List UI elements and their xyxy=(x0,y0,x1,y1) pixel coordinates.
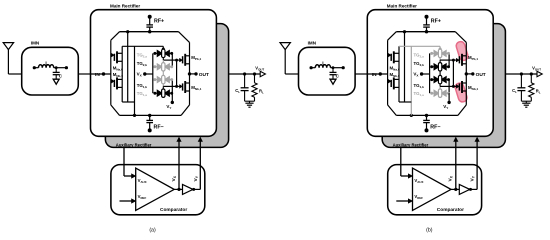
wire IMN to IN xyxy=(78,73,90,75)
wire bottom right corner xyxy=(458,105,466,116)
wire top bus right corner xyxy=(455,32,466,43)
VY feedback arrow xyxy=(193,188,200,190)
VX feedback arrow xyxy=(178,140,180,189)
wire top TG feed xyxy=(399,45,440,47)
svg-text:RF−: RF− xyxy=(430,124,440,130)
inductor L in IMN xyxy=(34,67,39,69)
wire TG2-TG3 link xyxy=(439,71,441,75)
capacitor CL xyxy=(243,72,246,75)
wire top bus left corner xyxy=(111,32,120,41)
svg-text:IN: IN xyxy=(372,72,377,78)
main rectifier block xyxy=(91,10,217,137)
svg-text:Comparator: Comparator xyxy=(437,207,464,213)
svg-text:IMN: IMN xyxy=(308,41,317,46)
node VY xyxy=(448,93,450,102)
RF+ terminal xyxy=(425,15,429,19)
antenna (a) xyxy=(3,43,13,50)
node VY xyxy=(171,93,173,102)
transistor MPa,0 xyxy=(388,54,389,56)
wire bottom bus xyxy=(396,114,458,116)
wire top bus right corner xyxy=(179,32,190,43)
VREF input xyxy=(120,200,133,202)
svg-text:Auxiliary Rectifier: Auxiliary Rectifier xyxy=(116,142,152,147)
svg-text:Comparator: Comparator xyxy=(160,207,187,213)
svg-text:L: L xyxy=(322,60,325,66)
ground in IMN xyxy=(330,79,336,84)
wire bottom left corner xyxy=(111,105,120,116)
wire left rail bottom join xyxy=(399,101,411,103)
wire left drain rail A xyxy=(398,46,400,102)
RF+ terminal xyxy=(148,15,152,19)
transistor MPb,1 xyxy=(177,59,180,61)
wire TG2-TG3 link xyxy=(162,71,164,75)
ground output xyxy=(521,100,531,102)
RF- terminal xyxy=(426,115,428,120)
transistor MPa,0 xyxy=(111,54,112,56)
wire right drain rail xyxy=(189,42,191,105)
svg-text:OUT: OUT xyxy=(199,72,209,78)
wire TG4 tap xyxy=(162,86,164,89)
terminal Vout xyxy=(260,71,265,76)
svg-text:RF+: RF+ xyxy=(154,19,164,25)
wire IMN to IN xyxy=(355,73,367,75)
wire antenna to IMN xyxy=(8,73,21,75)
transmission gate TG2a xyxy=(432,52,435,54)
svg-text:RF−: RF− xyxy=(154,124,164,130)
terminal Vout xyxy=(537,71,542,76)
wire bottom left corner xyxy=(388,105,397,116)
wire left gate column xyxy=(387,40,389,105)
buffer inverter xyxy=(459,184,470,194)
capacitor C in IMN xyxy=(332,66,335,69)
svg-text:OUT: OUT xyxy=(476,72,486,78)
wire TG4 tap xyxy=(439,86,441,89)
ground output xyxy=(245,100,255,102)
comparator block xyxy=(388,165,482,215)
wire op-amp output xyxy=(451,188,459,190)
resistor RL xyxy=(253,72,256,75)
transistor MPb,1 xyxy=(453,59,456,61)
VAUX input xyxy=(123,147,125,176)
buffer inverter xyxy=(183,184,194,194)
transmission gate TG1a xyxy=(155,92,158,94)
wire TG right join lower xyxy=(171,80,173,94)
wire left rail bottom join xyxy=(122,101,134,103)
wire TG right join upper xyxy=(448,53,450,66)
wire left drain rail C xyxy=(134,46,136,115)
antenna (b) xyxy=(280,43,290,50)
wire TG right join upper xyxy=(171,53,173,66)
svg-text:Main Rectifier: Main Rectifier xyxy=(110,3,140,8)
wire left drain rail A xyxy=(121,46,123,102)
ground in IMN xyxy=(53,79,59,84)
IMN block box xyxy=(299,47,356,95)
comparator block xyxy=(111,165,205,215)
resistor RL xyxy=(530,72,533,75)
svg-text:Auxiliary Rectifier: Auxiliary Rectifier xyxy=(393,142,429,147)
wire left drain rail B xyxy=(404,32,406,102)
VREF input xyxy=(396,200,409,202)
svg-text:L: L xyxy=(45,60,48,66)
wire TG right join lower xyxy=(448,80,450,94)
svg-text:IN: IN xyxy=(95,72,100,78)
transistor MNb,1 xyxy=(177,85,180,87)
transmission gate TG1a xyxy=(432,92,435,94)
wire OUT to Vout xyxy=(505,73,537,75)
wire top TG feed xyxy=(122,45,163,47)
highlight on MP,1 xyxy=(455,41,469,62)
wire TG gate feed xyxy=(176,60,178,86)
capacitor C in IMN xyxy=(55,66,58,69)
transmission gate TG1b xyxy=(432,79,435,81)
wire TG1 tap xyxy=(439,46,441,49)
capacitor CL xyxy=(520,72,523,75)
VAUX input xyxy=(400,147,402,176)
transmission gate TG2a xyxy=(155,52,158,54)
svg-text:RF+: RF+ xyxy=(431,19,441,25)
transmission gate TG2b xyxy=(155,66,158,68)
wire top bus xyxy=(120,31,179,33)
wire bottom bus xyxy=(120,114,182,116)
transistor MNb,1 xyxy=(453,85,456,87)
transmission gate TG1b xyxy=(155,79,158,81)
svg-text:(b): (b) xyxy=(426,228,433,234)
wire OUT to Vout xyxy=(229,73,261,75)
auxiliary rectifier block xyxy=(105,24,228,148)
node OUT xyxy=(466,73,473,75)
highlight on MN,1 xyxy=(454,82,468,103)
wire top bus xyxy=(396,31,455,33)
transistor MNa,0 xyxy=(388,80,389,82)
svg-text:Main Rectifier: Main Rectifier xyxy=(387,3,417,8)
wire TG1 tap xyxy=(162,46,164,49)
auxiliary rectifier block xyxy=(382,24,505,148)
inductor L in IMN xyxy=(311,67,316,69)
op-amp U1 xyxy=(413,168,452,210)
wire top bus left corner xyxy=(388,32,397,41)
wire TG left rail xyxy=(429,53,431,93)
node OUT xyxy=(190,73,197,75)
wire bottom right corner xyxy=(181,105,189,116)
op-amp U1 xyxy=(136,168,175,210)
wire TG left rail xyxy=(152,53,154,93)
RF- terminal xyxy=(149,115,151,120)
transistor MNa,0 xyxy=(111,80,112,82)
wire antenna to IMN xyxy=(285,73,298,75)
wire left drain rail B xyxy=(127,32,129,102)
wire right drain rail xyxy=(465,42,467,105)
wire left gate column xyxy=(110,40,112,105)
wire op-amp output xyxy=(174,188,182,190)
VY feedback arrow xyxy=(470,188,477,190)
VX feedback arrow xyxy=(455,140,457,189)
wire TG gate feed xyxy=(452,60,454,86)
IMN block box xyxy=(22,47,79,95)
main rectifier block xyxy=(367,10,493,137)
transmission gate TG2b xyxy=(432,66,435,68)
svg-text:IMN: IMN xyxy=(31,41,40,46)
svg-text:(a): (a) xyxy=(149,228,156,234)
wire left drain rail C xyxy=(410,46,412,115)
